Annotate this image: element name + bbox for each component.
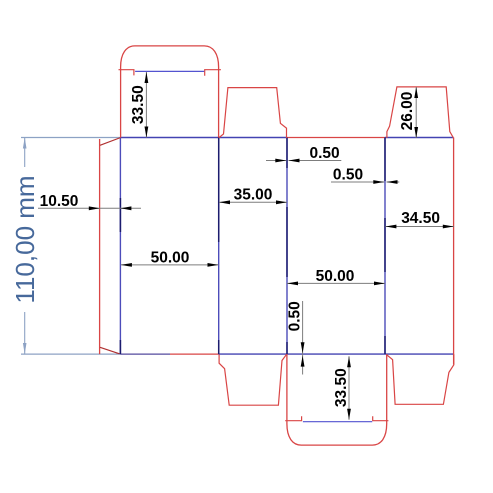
arrow down 33.50 top	[145, 127, 149, 138]
body top fold line panel1-2	[120, 137, 287, 139]
glue flap bottom chamfer	[100, 347, 120, 354]
top tuck lid outline	[121, 46, 219, 138]
fold line panel1/2 (dashed crease)	[218, 138, 220, 355]
bottom lid crease	[303, 421, 372, 423]
extension line top (110 dim)	[21, 137, 120, 139]
dimension 0.50 first tail	[266, 160, 286, 162]
dimension 0.50 second leader	[331, 181, 384, 183]
cut edge panel4 right	[453, 138, 455, 365]
top lid crease	[135, 70, 204, 72]
top lid left shoulder notch	[119, 70, 134, 76]
arrow left 50.00 panel1	[121, 263, 132, 267]
arrow up 33.50 bottom	[347, 356, 351, 367]
arrow left 0.50 second	[387, 180, 398, 184]
arrow left 34.50	[385, 225, 396, 229]
arrow right 35.00	[276, 200, 287, 204]
arrow down 26.00	[414, 127, 418, 138]
dimension 10.50 line	[38, 207, 141, 209]
arrow left 50.00 panel3	[287, 282, 298, 286]
top dust flap above panel4	[387, 87, 454, 138]
dimension 0.50 bottom line	[302, 301, 304, 375]
svg-text:10.50: 10.50	[40, 193, 79, 210]
arrow left 35.00	[219, 200, 230, 204]
arrow right 0.50 second	[373, 180, 384, 184]
body bottom edge panel1 (blend)	[120, 353, 170, 355]
arrow down 110	[23, 343, 27, 354]
svg-text:50.00: 50.00	[316, 268, 355, 285]
arrow left 0.50 first	[289, 159, 300, 163]
body bottom cut edge panel1 right part	[170, 353, 219, 355]
arrow up 26.00	[414, 87, 418, 98]
arrow up 110	[23, 137, 27, 148]
arrow right 0.50 first	[275, 159, 286, 163]
body bottom fold line panels 2-4	[219, 353, 454, 355]
bottom dust flap below panel2	[219, 354, 287, 405]
arrow right 34.50	[443, 225, 454, 229]
svg-text:50.00: 50.00	[151, 249, 190, 266]
dimension 0.50 second tail	[387, 181, 400, 183]
svg-text:110,00 mm: 110,00 mm	[10, 175, 40, 303]
svg-text:35.00: 35.00	[234, 187, 273, 204]
dimension 110,00 mm line upper segment	[24, 137, 26, 167]
arrow right at glue flap edge	[89, 206, 100, 210]
dimension 110,00 mm line lower segment	[24, 312, 26, 354]
svg-text:0.50: 0.50	[310, 145, 340, 162]
arrow right 50.00 panel1	[208, 263, 219, 267]
svg-text:26.00: 26.00	[399, 92, 416, 131]
extension line bottom (110 dim)	[21, 353, 120, 355]
arrow down 0.50 bottom	[301, 342, 305, 353]
bottom lid left shoulder notch	[285, 416, 301, 421]
dimension 26.00 line	[415, 87, 417, 138]
svg-text:33.50: 33.50	[333, 368, 350, 407]
arrow right 50.00 panel3	[374, 282, 385, 286]
dimension 50.00 panel3 line	[287, 282, 385, 284]
svg-text:0.50: 0.50	[333, 166, 363, 183]
top lid right shoulder notch	[205, 70, 221, 76]
svg-text:34.50: 34.50	[401, 210, 440, 227]
fold line panel1 left (dashed crease)	[119, 138, 121, 355]
svg-text:33.50: 33.50	[130, 85, 147, 124]
glue flap top chamfer	[100, 138, 120, 146]
arrow down 33.50 bottom	[347, 409, 351, 420]
dimension 33.50 bottom line	[348, 356, 350, 420]
arrow left at fold	[120, 206, 131, 210]
bottom lid right shoulder notch	[373, 416, 389, 421]
top dust flap above panel2	[219, 88, 287, 138]
body top fold line panel4	[385, 137, 454, 139]
body top cut edge panel3	[287, 137, 385, 139]
bottom dust flap below panel4	[387, 354, 454, 404]
arrow up 33.50 top	[145, 72, 149, 83]
bottom tuck lid outline	[287, 354, 387, 445]
fold line panel2/3 (dashed crease)	[286, 138, 288, 355]
glue flap left edge	[99, 139, 101, 354]
fold line panel3/4 (dashed crease)	[384, 138, 386, 355]
dimension 35.00 line	[219, 201, 287, 203]
dimension 50.00 panel1 line	[121, 264, 219, 266]
dimension 0.50 first leader	[289, 160, 342, 162]
dimension 33.50 top line	[145, 72, 147, 138]
svg-text:0.50: 0.50	[287, 301, 304, 331]
dimension 34.50 line	[385, 226, 453, 228]
arrow up 0.50 bottom	[301, 356, 305, 367]
